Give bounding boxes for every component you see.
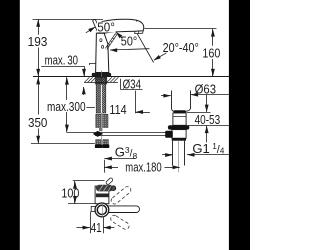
svg-text:41: 41 (91, 220, 102, 235)
dim 100 line (74, 181, 76, 187)
leader 50deg second horizontal (110, 49, 150, 50)
aerator (135, 31, 143, 34)
arrow max30 up (82, 87, 86, 94)
tailpipe centerline (178, 141, 180, 172)
arrow 193 bottom (36, 69, 40, 76)
drain bottom band (172, 138, 186, 141)
spout end cap line (135, 20, 138, 22)
dim max30 lower arrow line (83, 87, 85, 95)
svg-text:Ø34: Ø34 (123, 76, 141, 91)
dim O34 underline (121, 89, 143, 91)
centerline shank gap (101, 113, 103, 115)
faucet lever up (93, 19, 101, 33)
plan spout bar (102, 206, 140, 213)
hose-end extension line (31, 143, 95, 145)
dim max180 right arrow (165, 167, 180, 169)
plan body dark band (96, 194, 109, 198)
svg-text:20°-40°: 20°-40° (163, 40, 199, 55)
svg-text:Ø63: Ø63 (195, 81, 216, 96)
dim 40-53 underline (188, 125, 229, 127)
top extension line (33, 19, 104, 21)
leader 20-40 (154, 53, 167, 60)
supply pipe left (96, 114, 101, 127)
label 50deg first halo (97, 22, 116, 33)
plan side tab (91, 206, 97, 211)
drain body (172, 130, 186, 139)
deck hatch left (85, 77, 96, 82)
dim 40-53 upper arrow (206, 95, 208, 112)
dim 160 line (212, 29, 214, 46)
plan ext line bottom (68, 203, 95, 205)
spout-top extension line (145, 28, 217, 30)
lever lowered position (105, 34, 116, 50)
rod joint (93, 131, 103, 137)
rod extension line left (66, 132, 95, 134)
plan lever arm (96, 185, 113, 192)
arrow 160 bottom (211, 69, 215, 76)
arrow 350 top (36, 77, 40, 84)
dim 193 line (38, 19, 40, 35)
dim 41 right arrow (103, 227, 114, 229)
base flange (92, 73, 111, 77)
centerline upper (101, 71, 103, 82)
arrow 193 top (36, 19, 40, 26)
svg-text:350: 350 (28, 115, 47, 130)
dim 350 line (38, 77, 40, 115)
dim G114 left arrow (162, 154, 172, 156)
svg-text:160: 160 (202, 45, 220, 60)
rod knuckle (165, 131, 173, 138)
plan swivel dashed upper (110, 185, 132, 205)
dim 114 arrow line (136, 112, 150, 114)
svg-text:40-53: 40-53 (195, 112, 221, 127)
dim 40-53 lower arrow (206, 126, 208, 143)
plan ext line top (73, 180, 105, 182)
drain flange (168, 125, 189, 129)
faucet spout (102, 19, 144, 33)
tailpipe (173, 141, 185, 166)
supply pipe right (103, 114, 108, 127)
dim 41 ext left (90, 212, 92, 234)
arrow max30 down (82, 69, 86, 76)
plan swivel dashed lower (109, 214, 130, 231)
dim O34 tick (120, 79, 122, 90)
plan lever knob (111, 186, 116, 191)
dim 41 left arrow (77, 227, 90, 229)
dim O63 left arrow (161, 95, 171, 97)
faucet body (96, 33, 109, 72)
svg-text:max. 30: max. 30 (45, 52, 78, 67)
plan centerline (102, 204, 104, 217)
dim max30 underline (41, 66, 84, 68)
pop-up rod (95, 133, 166, 136)
black bar left (0, 0, 20, 250)
dim O63 underline (191, 94, 229, 96)
white background (0, 0, 250, 250)
dim 40-53 ext line (187, 112, 211, 114)
hose fitting left (96, 140, 102, 145)
body dots (100, 39, 102, 42)
leader arrow 50deg first (86, 27, 95, 33)
deck line (33, 76, 229, 78)
washer line (84, 82, 118, 84)
spray direction line (137, 34, 166, 63)
dim max180 left arrow (104, 167, 118, 169)
connector (99, 128, 102, 131)
dim max30 upper arrow line (84, 66, 86, 76)
hose fitting right (103, 140, 109, 145)
side knob mark (90, 64, 97, 66)
dim 41 ext right (103, 218, 105, 234)
hose nut right (102, 144, 109, 148)
svg-text:100: 100 (61, 186, 79, 201)
lever pivot marks (99, 31, 104, 35)
svg-text:max.180: max.180 (125, 160, 161, 175)
arrow 160 top (211, 29, 215, 36)
dim 114 tick (135, 91, 137, 114)
plan body rect (95, 186, 109, 204)
dim max300 line (66, 77, 68, 100)
drain knob side right / O63 ext (186, 91, 191, 112)
svg-text:max.300: max.300 (47, 99, 86, 114)
max300 leader dash (87, 107, 95, 109)
G3/8 underline (104, 158, 135, 160)
plan base ring (95, 203, 109, 217)
svg-text:50°: 50° (97, 19, 115, 34)
arrow 350 bottom (36, 136, 40, 143)
threaded shank (96, 77, 106, 113)
drain knob band (173, 110, 186, 113)
svg-text:114: 114 (109, 102, 126, 117)
dim max180 tick (104, 160, 106, 173)
svg-text:50°: 50° (121, 34, 137, 49)
deck hatch right (107, 77, 118, 82)
plan lever raised capsule (105, 177, 113, 185)
black bar right (229, 0, 250, 250)
drain neck (173, 113, 186, 125)
dim G114 underline (187, 154, 229, 156)
svg-text:193: 193 (28, 34, 48, 49)
drain knob side left / O63 ext (172, 91, 174, 112)
shank nut (95, 77, 107, 84)
hose nut left (95, 144, 102, 148)
leader arrow 50deg second up (116, 32, 122, 38)
arrow max300 bottom (65, 125, 69, 132)
arrow max300 top (65, 77, 69, 84)
